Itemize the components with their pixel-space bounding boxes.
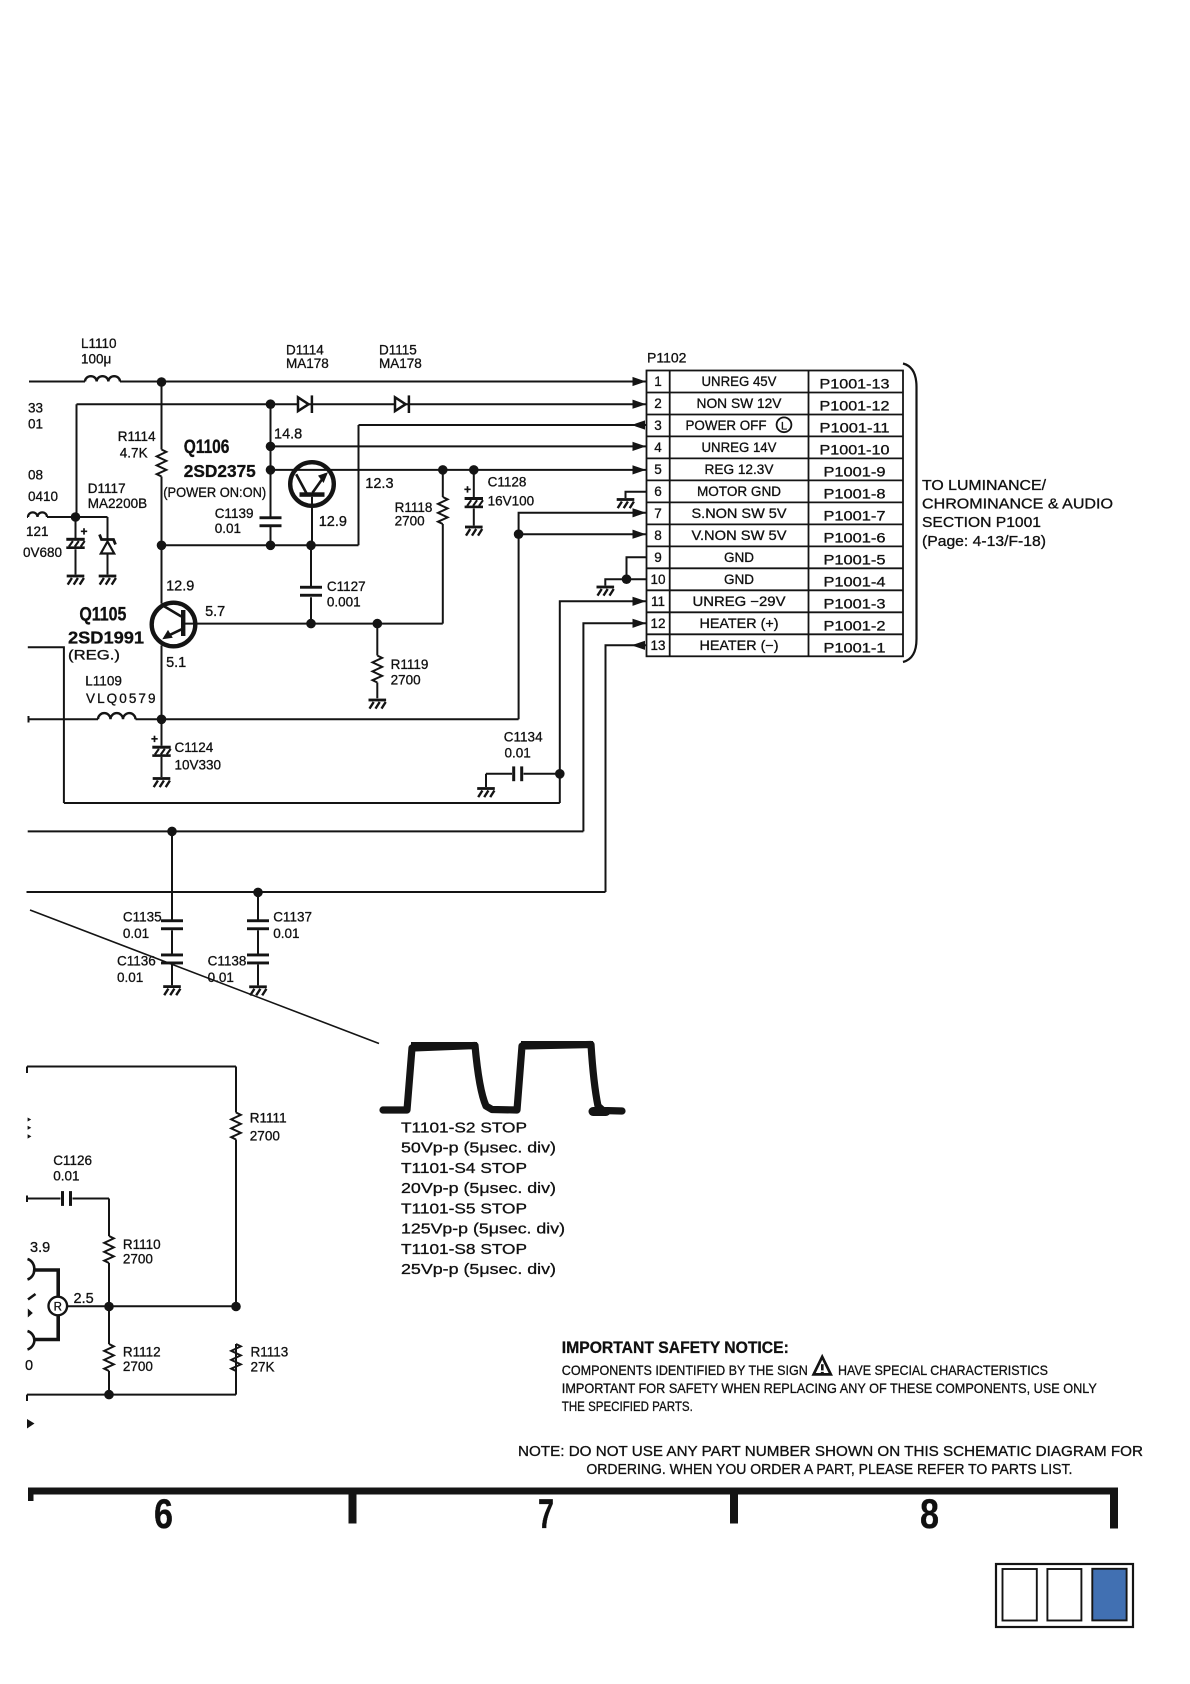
svg-text:0.01: 0.01 (123, 926, 149, 941)
svg-text:SECTION P1001: SECTION P1001 (922, 515, 1041, 531)
svg-text:7: 7 (538, 1490, 554, 1537)
svg-text:7: 7 (654, 506, 662, 521)
svg-text:S.NON SW 5V: S.NON SW 5V (692, 506, 787, 521)
wire pin13 HEATER- (27, 645, 647, 892)
svg-text:2.5: 2.5 (74, 1291, 94, 1307)
svg-text:R1119: R1119 (391, 657, 429, 672)
svg-text:P1001-2: P1001-2 (824, 619, 886, 634)
svg-text:2SD2375: 2SD2375 (184, 461, 256, 481)
svg-text:3.9: 3.9 (30, 1240, 50, 1256)
svg-text:0.01: 0.01 (117, 970, 143, 985)
svg-text:16V100: 16V100 (488, 494, 535, 509)
svg-text:11: 11 (651, 594, 665, 609)
ruler bar (28, 1488, 1118, 1495)
svg-text:POWER OFF: POWER OFF (686, 418, 767, 433)
svg-text:(POWER ON:ON): (POWER ON:ON) (163, 485, 266, 500)
svg-text:2700: 2700 (395, 514, 425, 529)
svg-text:MA178: MA178 (379, 356, 422, 371)
resistor R1113 (235, 1344, 237, 1371)
svg-text:13: 13 (650, 638, 665, 653)
svg-text:NON SW 12V: NON SW 12V (697, 396, 782, 411)
svg-text:UNREG 45V: UNREG 45V (702, 374, 777, 389)
wire L1109 rail (29, 718, 519, 720)
ground at 258,988 (249, 985, 267, 995)
transistor Q1106 (290, 462, 334, 506)
svg-text:R1114: R1114 (118, 429, 156, 444)
wire lower box bottom rail (27, 1371, 236, 1401)
svg-text:P1001-10: P1001-10 (820, 443, 890, 458)
capacitor C1124 electrolytic (161, 719, 163, 777)
capacitor C1137 (257, 892, 259, 920)
svg-text:C1139: C1139 (215, 506, 254, 521)
svg-text:100μ: 100μ (81, 352, 111, 367)
svg-text:NOTE: DO NOT USE ANY PART NUM: NOTE: DO NOT USE ANY PART NUMBER SHOWN O… (518, 1444, 1143, 1460)
ground at 377.3,700 (369, 699, 387, 709)
svg-text:L1109: L1109 (85, 674, 122, 689)
svg-text:P1001-1: P1001-1 (824, 641, 886, 656)
warning triangle (814, 1357, 831, 1375)
node on NONSW12V (266, 399, 276, 409)
node junction at 626.5,579.2 (622, 574, 632, 584)
capacitor C1135 (171, 831, 173, 919)
capacitor C1136 (171, 930, 173, 985)
svg-text:2SD1991: 2SD1991 (68, 628, 144, 648)
node junction at 270.5,446.4 (266, 442, 276, 452)
wedge mark bottom left (27, 1419, 35, 1429)
svg-text:P1001-6: P1001-6 (824, 531, 886, 546)
node junction at 311,623.6 (306, 619, 316, 629)
node junction at 109,1394.6 (104, 1390, 114, 1400)
wire NONSW12V rail (77, 404, 647, 517)
oscilloscope waveform trace (383, 1045, 622, 1112)
circled L on POWER OFF pin (777, 417, 792, 432)
svg-text:C1128: C1128 (488, 475, 527, 490)
svg-text:C1137: C1137 (273, 910, 312, 925)
wire UNREG45V top rail (29, 381, 646, 383)
svg-text:10V330: 10V330 (175, 758, 222, 773)
svg-text:(Page: 4-13/F-18): (Page: 4-13/F-18) (922, 534, 1046, 550)
svg-text:MA178: MA178 (286, 356, 329, 371)
svg-text:C1138: C1138 (208, 954, 247, 969)
wire pin10 GND (605, 579, 646, 585)
page indicator panel (996, 1564, 1133, 1627)
svg-text:R: R (54, 1301, 62, 1313)
waveform captions (401, 1119, 565, 1278)
wire pin11 UNREG -29V (64, 601, 646, 803)
wire UNREG14V row4 (271, 445, 647, 447)
svg-text:P1001-4: P1001-4 (824, 575, 887, 590)
wire mid rail 2.5V (67, 1305, 236, 1307)
pin numbers 1-13 (650, 374, 665, 653)
svg-text:4.7K: 4.7K (120, 446, 148, 461)
svg-text:3: 3 (654, 418, 662, 433)
brace bracket right of table (903, 364, 917, 663)
svg-text:8: 8 (920, 1490, 939, 1537)
node junction at 311,545.3 (306, 541, 316, 551)
svg-text:R1111: R1111 (250, 1111, 287, 1126)
wire pin9 GND (627, 557, 647, 579)
switch thick link upper (34, 1270, 58, 1296)
svg-text:C1124: C1124 (175, 740, 214, 755)
svg-text:12: 12 (650, 616, 665, 631)
resistor R1112 (108, 1307, 110, 1395)
svg-text:Q1105: Q1105 (79, 604, 126, 625)
callout diagonal to waveform (30, 910, 379, 1044)
svg-text:TO LUMINANCE/: TO LUMINANCE/ (922, 478, 1047, 494)
svg-text:P1001-11: P1001-11 (820, 421, 890, 436)
svg-text:5.1: 5.1 (166, 655, 186, 671)
node junction at 473.8,469.9 (469, 465, 479, 475)
node junction at 442.8,469.9 (438, 465, 448, 475)
svg-text:08: 08 (28, 468, 43, 483)
transistor Q1105 (161, 545, 163, 719)
inductor (cut off) left edge (28, 512, 47, 517)
inductor L1109 (98, 713, 136, 719)
svg-text:50Vp-p (5μsec. div): 50Vp-p (5μsec. div) (401, 1140, 556, 1157)
svg-text:5.7: 5.7 (205, 604, 225, 620)
svg-text:6: 6 (654, 484, 662, 499)
node junction at 161.5,545.3 (157, 541, 167, 551)
svg-text:P1001-8: P1001-8 (824, 487, 886, 502)
diode D1115 (395, 395, 409, 413)
capacitor C1139 (270, 404, 272, 545)
connector P1102 table frame (647, 371, 904, 657)
resistor R1118 (442, 470, 444, 624)
node junction at 161.5,719.3 (157, 715, 167, 725)
svg-text:THE SPECIFIED PARTS.: THE SPECIFIED PARTS. (562, 1398, 693, 1414)
ground pin6 MOTOR GND (626, 492, 647, 498)
svg-text:2700: 2700 (391, 672, 421, 687)
left edge stub marks (28, 1118, 32, 1122)
svg-text:P1001-5: P1001-5 (824, 553, 886, 568)
svg-text:C1135: C1135 (123, 910, 162, 925)
svg-text:0.01: 0.01 (505, 746, 531, 761)
svg-text:0410: 0410 (28, 489, 58, 504)
svg-text:VLQ0579: VLQ0579 (86, 691, 156, 706)
ground at 625.5,499.5 (617, 498, 635, 508)
capacitor C1126 (27, 1196, 109, 1203)
svg-text:D1117: D1117 (88, 481, 126, 496)
resistor R1119 (376, 624, 378, 699)
svg-text:12.9: 12.9 (319, 514, 347, 530)
svg-text:125Vp-p (5μsec. div): 125Vp-p (5μsec. div) (401, 1221, 565, 1238)
svg-text:2700: 2700 (250, 1128, 280, 1143)
svg-text:UNREG −29V: UNREG −29V (693, 594, 786, 609)
svg-text:12.3: 12.3 (365, 476, 393, 492)
ground at 75.5,576 (67, 575, 85, 585)
svg-text:0.01: 0.01 (53, 1168, 79, 1183)
svg-text:P1001-13: P1001-13 (820, 377, 890, 392)
svg-text:5: 5 (654, 462, 662, 477)
ground at 107.5,576 (99, 575, 117, 585)
svg-text:Q1106: Q1106 (184, 437, 230, 458)
svg-text:P1001-3: P1001-3 (824, 597, 886, 612)
switch contact arc top (cut off) (28, 1259, 35, 1280)
svg-text:R1112: R1112 (123, 1344, 161, 1359)
svg-text:20Vp-p (5μsec. div): 20Vp-p (5μsec. div) (401, 1180, 556, 1197)
svg-text:L1110: L1110 (81, 336, 117, 351)
svg-text:T1101-S8 STOP: T1101-S8 STOP (401, 1241, 527, 1258)
ground at 172,985 (163, 985, 181, 995)
wire POWER OFF row3 (359, 425, 647, 545)
diode D1114 (298, 395, 312, 413)
svg-text:C1127: C1127 (327, 579, 366, 594)
svg-text:R1113: R1113 (251, 1344, 289, 1359)
wire Q1106 emitter rail (162, 544, 359, 546)
node junction at 258,892.4 (253, 888, 263, 898)
svg-text:C1126: C1126 (53, 1153, 92, 1168)
svg-text:P1001-7: P1001-7 (824, 509, 886, 524)
svg-text:R1110: R1110 (123, 1237, 161, 1252)
wire left REG out (28, 647, 64, 803)
svg-text:MA2200B: MA2200B (88, 496, 147, 511)
svg-text:25Vp-p (5μsec. div): 25Vp-p (5μsec. div) (401, 1261, 556, 1278)
svg-text:HEATER (+): HEATER (+) (700, 616, 779, 631)
svg-text:ORDERING. WHEN YOU ORDER A P: ORDERING. WHEN YOU ORDER A PART, PLEASE … (586, 1462, 1072, 1478)
svg-text:8: 8 (654, 528, 662, 543)
svg-text:P1102: P1102 (647, 349, 687, 365)
svg-text:0.01: 0.01 (273, 926, 299, 941)
svg-text:P1001-12: P1001-12 (820, 399, 890, 414)
inductor L1110 (85, 376, 120, 381)
svg-text:121: 121 (26, 524, 49, 539)
svg-text:IMPORTANT FOR SAFETY WHEN REPL: IMPORTANT FOR SAFETY WHEN REPLACING ANY … (562, 1380, 1098, 1396)
svg-text:2700: 2700 (123, 1252, 153, 1267)
svg-text:14.8: 14.8 (274, 427, 302, 443)
pin destinations P1001-x (820, 377, 890, 656)
svg-text:4: 4 (654, 440, 662, 455)
svg-text:C1134: C1134 (504, 730, 543, 745)
svg-text:+: + (464, 483, 471, 497)
resistor R1110 (108, 1199, 110, 1307)
resistor R1111 (235, 1067, 237, 1307)
svg-text:GND: GND (724, 550, 754, 565)
node junction at 377.3,623.6 (373, 619, 383, 629)
ground C1128 (465, 526, 483, 536)
node junction at 270.5,469.9 (266, 465, 276, 475)
pin net names (686, 374, 787, 653)
svg-text:HAVE SPECIAL CHARACTERISTICS: HAVE SPECIAL CHARACTERISTICS (838, 1362, 1048, 1378)
svg-text:12.9: 12.9 (166, 579, 194, 595)
node junction L1110/R1114 (157, 377, 167, 387)
svg-text:UNREG 14V: UNREG 14V (702, 440, 777, 455)
svg-text:10: 10 (650, 572, 665, 587)
page indicator active (blue) (1092, 1569, 1126, 1621)
ground at 486,788.5 (477, 787, 495, 797)
svg-text:0.01: 0.01 (215, 521, 241, 536)
svg-text:6: 6 (154, 1490, 173, 1537)
switch thick link lower (34, 1316, 58, 1340)
svg-text:0: 0 (25, 1358, 33, 1374)
node junction at 109,1306.5 (104, 1302, 114, 1312)
svg-text:T1101-S5 STOP: T1101-S5 STOP (401, 1200, 527, 1217)
svg-text:+: + (151, 732, 158, 746)
svg-text:0V680: 0V680 (23, 545, 62, 560)
svg-text:V.NON SW 5V: V.NON SW 5V (692, 528, 787, 543)
node junction at 518.6,534.2 (514, 529, 524, 539)
wire pin12 HEATER+ (28, 623, 646, 831)
svg-text:01: 01 (28, 417, 43, 432)
ground pin10 (597, 586, 615, 596)
wire Q1105 base rail (184, 623, 443, 625)
wire lower box top rail (27, 1067, 236, 1074)
capacitor C1138 (257, 930, 259, 985)
ground at 161.5,778.5 (153, 777, 171, 787)
capacitor C1128 electrolytic (473, 470, 475, 526)
wire D1117 net (27, 517, 108, 539)
svg-text:MOTOR GND: MOTOR GND (697, 484, 781, 499)
node junction at 172,831.4 (167, 827, 177, 837)
resistor R1114 (161, 382, 163, 545)
svg-text:L: L (781, 420, 787, 432)
svg-text:2: 2 (654, 396, 662, 411)
svg-text:P1001-9: P1001-9 (824, 465, 886, 480)
svg-text:GND: GND (724, 572, 754, 587)
svg-text:27K: 27K (251, 1360, 275, 1375)
wire pin7 S.NON SW 5V (519, 513, 646, 720)
svg-text:33: 33 (28, 401, 43, 416)
note TO LUMINANCE (922, 478, 1113, 550)
svg-text:0.001: 0.001 (327, 595, 361, 610)
capacitor C1121 electrolytic (cut label 0V680) (75, 517, 77, 575)
node junction at 236,1306.5 (231, 1302, 241, 1312)
svg-text:HEATER (−): HEATER (−) (700, 638, 779, 653)
svg-text:T1101-S4 STOP: T1101-S4 STOP (401, 1160, 527, 1177)
node junction at 270.5,545.3 (266, 541, 276, 551)
zener diode D1117 (100, 535, 116, 545)
svg-text:(REG.): (REG.) (68, 648, 120, 663)
svg-text:COMPONENTS IDENTIFIED BY THE S: COMPONENTS IDENTIFIED BY THE SIGN (562, 1362, 808, 1378)
svg-text:9: 9 (654, 550, 662, 565)
svg-text:2700: 2700 (123, 1359, 153, 1374)
capacitor C1134 (555, 769, 565, 779)
wire pin8 V.NON SW 5V (519, 533, 646, 535)
rotor contact R circle (49, 1297, 68, 1316)
svg-text:T1101-S2 STOP: T1101-S2 STOP (401, 1119, 527, 1136)
node D1117 junction (71, 512, 81, 522)
svg-text:1: 1 (654, 374, 662, 389)
switch contact arc bottom (cut off) (28, 1331, 35, 1350)
svg-text:+: + (81, 525, 88, 539)
wire REG12.3V row5 (271, 469, 647, 471)
svg-text:CHROMINANCE & AUDIO: CHROMINANCE & AUDIO (922, 497, 1113, 513)
svg-text:IMPORTANT SAFETY NOTICE:: IMPORTANT SAFETY NOTICE: (562, 1339, 789, 1357)
capacitor C1127 (310, 545, 312, 623)
svg-text:REG 12.3V: REG 12.3V (705, 462, 774, 477)
